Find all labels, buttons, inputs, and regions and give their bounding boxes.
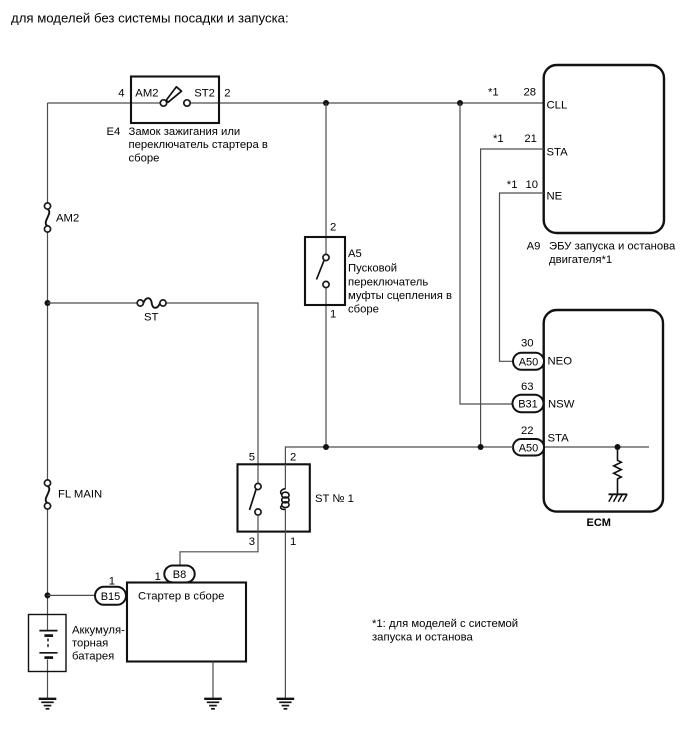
svg-text:30: 30 <box>521 338 534 350</box>
node: junction STA / A5 branch <box>323 444 329 450</box>
battery cells <box>39 631 57 658</box>
fuse FL MAIN <box>44 480 102 509</box>
svg-text:Стартер в сборе: Стартер в сборе <box>138 591 224 603</box>
terminal ST2 label <box>194 88 215 100</box>
wire: A9 STA pin 21 <box>481 149 544 447</box>
wire: battery junction to B15 <box>48 594 96 596</box>
ground: relay pin 1 <box>277 699 295 709</box>
svg-text:ECM: ECM <box>587 517 611 529</box>
relay coil <box>281 464 289 531</box>
ECM box <box>544 310 663 512</box>
svg-text:STA: STA <box>548 433 570 445</box>
resistor in ECM <box>614 447 622 494</box>
ignition switch lever <box>166 87 181 102</box>
label battery <box>72 624 125 662</box>
svg-text:E4: E4 <box>107 126 121 138</box>
connector A50 NEO <box>513 338 572 370</box>
svg-text:AM2: AM2 <box>56 213 79 225</box>
svg-text:торная: торная <box>72 637 108 649</box>
svg-text:NEO: NEO <box>548 356 573 368</box>
svg-text:A50: A50 <box>519 356 539 368</box>
svg-text:CLL: CLL <box>547 100 568 112</box>
node: junction main vertical / ST branch <box>45 300 51 306</box>
wire: STA line into ECM with resistor feed <box>544 446 649 448</box>
wire: A5 branch vertical <box>325 103 327 447</box>
wire: A9 NE pin 10 to NEO <box>500 193 544 361</box>
svg-text:5: 5 <box>249 451 255 463</box>
wire: NSW branch <box>460 103 513 404</box>
label A9 ECU <box>527 240 676 266</box>
svg-text:28: 28 <box>524 87 537 99</box>
svg-text:4: 4 <box>118 88 124 100</box>
A9 pin 21 STA labels <box>493 133 568 158</box>
svg-text:переключатель: переключатель <box>348 276 428 288</box>
battery box <box>29 615 67 672</box>
svg-text:ЭБУ запуска и останова: ЭБУ запуска и останова <box>549 240 676 252</box>
svg-text:муфты сцепления в: муфты сцепления в <box>348 290 452 302</box>
ground: starter <box>204 699 222 709</box>
svg-text:1: 1 <box>290 536 296 548</box>
svg-text:A9: A9 <box>527 240 541 252</box>
starter relay ST No 1 box <box>238 464 310 531</box>
svg-text:B31: B31 <box>518 399 538 411</box>
ignition switch contacts <box>160 100 190 106</box>
svg-text:Замок зажигания или: Замок зажигания или <box>129 126 241 138</box>
svg-text:двигателя*1: двигателя*1 <box>549 254 612 266</box>
svg-text:22: 22 <box>521 425 534 437</box>
wire: ST branch to relay pin 5 <box>48 303 259 483</box>
wire: ignition switch right to A9 CLL pin <box>190 102 544 104</box>
svg-text:B15: B15 <box>101 591 121 603</box>
svg-text:ST2: ST2 <box>194 88 215 100</box>
relay pin 1 label <box>290 536 296 548</box>
pin 4 label <box>118 88 124 100</box>
wire: starter to ground <box>212 662 214 698</box>
svg-text:запуска и останова: запуска и останова <box>372 632 473 644</box>
wire: relay pin 1 to ground <box>284 532 286 698</box>
footnote <box>372 618 518 644</box>
A9 pin 28 CLL labels <box>488 87 567 112</box>
ECU A9 box <box>544 65 664 233</box>
pin 2 label <box>224 88 230 100</box>
A5 pin 1 label <box>330 309 336 321</box>
relay contacts <box>255 483 261 515</box>
svg-text:ST № 1: ST № 1 <box>315 493 354 505</box>
svg-text:63: 63 <box>521 381 534 393</box>
wire: STA horizontal to relay pin 2 <box>285 447 513 464</box>
A9 pin 10 NE labels <box>507 179 563 203</box>
connector B15 <box>95 575 126 605</box>
A5 lever <box>317 261 325 280</box>
svg-text:*1: *1 <box>493 133 504 145</box>
A5 contacts <box>323 254 329 287</box>
svg-text:3: 3 <box>249 536 255 548</box>
svg-text:STA: STA <box>547 146 569 158</box>
label ECM <box>587 517 611 529</box>
wire: main left vertical battery feed <box>47 103 49 698</box>
ignition switch E4 box <box>131 77 219 124</box>
svg-text:2: 2 <box>290 451 296 463</box>
fuse ST <box>137 298 166 323</box>
connector B31 NSW <box>513 381 575 412</box>
svg-text:2: 2 <box>224 88 230 100</box>
svg-text:A5: A5 <box>348 248 362 260</box>
fuse AM2 <box>44 203 79 232</box>
clutch start switch A5 box <box>305 237 345 305</box>
label E4 ignition switch <box>107 126 268 164</box>
svg-text:*1: *1 <box>488 87 499 99</box>
chassis ground in ECM <box>609 494 628 502</box>
connector B8 <box>155 566 195 583</box>
title <box>11 11 289 26</box>
relay pin 5 label <box>249 451 255 463</box>
svg-text:21: 21 <box>524 133 537 145</box>
svg-text:10: 10 <box>526 179 539 191</box>
relay pin 3 label <box>249 536 255 548</box>
terminal AM2 label <box>135 88 158 100</box>
svg-text:ST: ST <box>144 312 159 324</box>
svg-text:Аккумуля-: Аккумуля- <box>72 624 125 636</box>
svg-text:для моделей без системы посадк: для моделей без системы посадки и запуск… <box>11 11 289 26</box>
svg-text:2: 2 <box>330 222 336 234</box>
svg-text:сборе: сборе <box>129 152 160 164</box>
ground: battery <box>39 699 57 709</box>
svg-text:Пусковой: Пусковой <box>348 263 397 275</box>
wire: ignition switch left to main vertical <box>48 102 161 104</box>
svg-text:AM2: AM2 <box>135 88 158 100</box>
svg-text:NE: NE <box>547 191 563 203</box>
svg-text:батарея: батарея <box>72 651 114 663</box>
relay lever <box>250 490 257 511</box>
wire: relay pin 3 to connector B8 <box>180 515 258 565</box>
svg-text:переключатель стартера в: переключатель стартера в <box>129 139 268 151</box>
svg-text:1: 1 <box>330 309 336 321</box>
relay pin 2 label <box>290 451 296 463</box>
connector A50 STA <box>513 425 569 456</box>
node: junction battery / B15 <box>45 592 51 598</box>
svg-text:FL MAIN: FL MAIN <box>58 489 102 501</box>
svg-text:B8: B8 <box>173 569 186 581</box>
node: junction STA / A9 STA branch <box>478 444 484 450</box>
node: junction CLL line / A5 branch <box>323 100 329 106</box>
node: junction STA / resistor <box>615 444 621 450</box>
svg-text:1: 1 <box>109 575 115 587</box>
label ST No 1 <box>315 493 354 505</box>
svg-text:*1: *1 <box>507 179 518 191</box>
node: junction CLL line / NSW branch <box>457 100 463 106</box>
svg-text:A50: A50 <box>519 443 539 455</box>
starter assembly box <box>127 583 246 662</box>
A5 pin 2 label <box>330 222 336 234</box>
label A5 clutch start switch <box>348 248 452 316</box>
svg-text:*1: для моделей с системой: *1: для моделей с системой <box>372 618 518 630</box>
svg-text:1: 1 <box>155 571 161 583</box>
svg-text:сборе: сборе <box>348 304 379 316</box>
svg-text:NSW: NSW <box>548 399 575 411</box>
